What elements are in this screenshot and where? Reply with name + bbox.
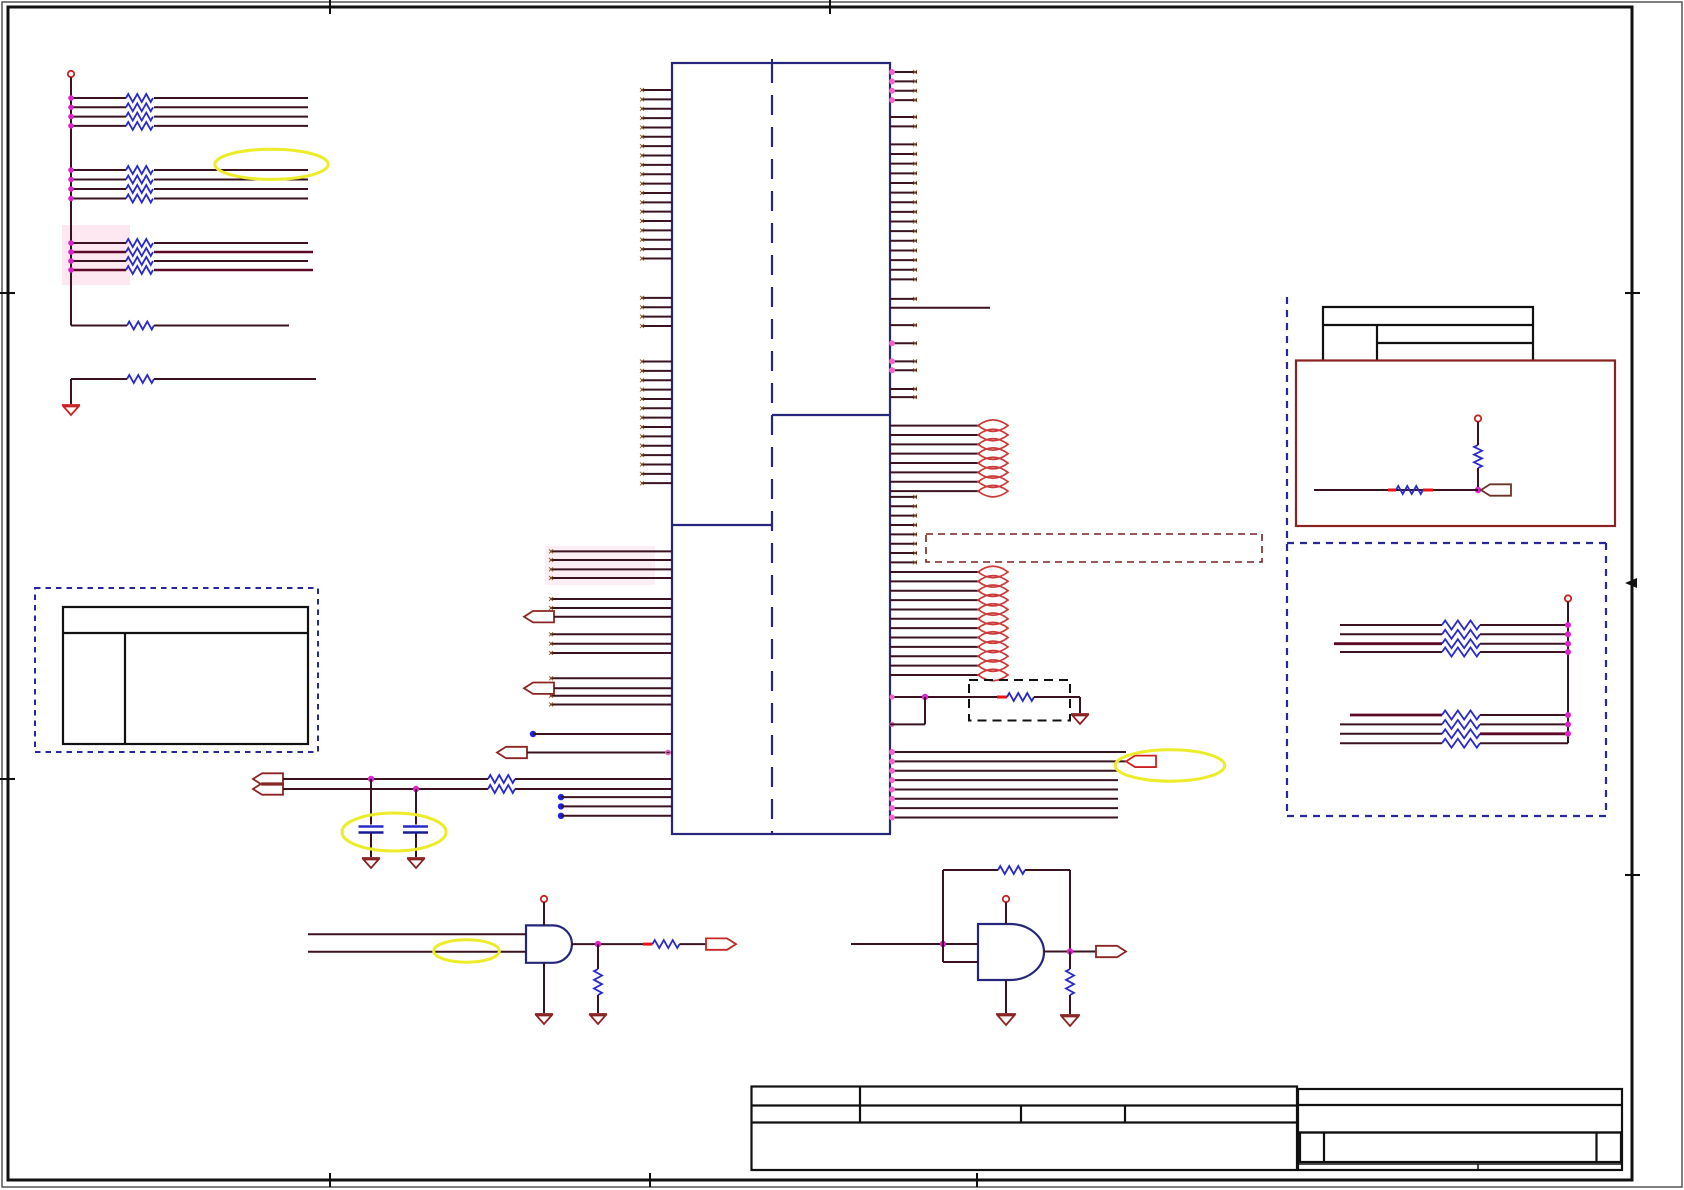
wire xyxy=(597,995,599,1013)
resistor R28 xyxy=(1442,648,1480,657)
sub-circuit box xyxy=(1296,361,1615,527)
junction xyxy=(922,694,928,700)
highlight tint xyxy=(62,225,130,285)
wire output xyxy=(1044,951,1096,953)
power pin VP1 xyxy=(68,71,74,77)
resistor R24 xyxy=(126,195,153,203)
IC right pin group D xyxy=(889,297,917,399)
wire xyxy=(554,687,672,689)
IC U1 divider right half xyxy=(772,414,890,416)
port P3 xyxy=(497,747,527,758)
wire bundle to coil 1 xyxy=(890,426,980,492)
wire group rows 1-2 xyxy=(71,98,308,199)
wire power bus vertical xyxy=(1567,602,1569,744)
wire xyxy=(1477,422,1479,445)
wire to ground xyxy=(1034,697,1080,713)
port P1 xyxy=(524,611,554,622)
resistor R27 xyxy=(1442,639,1480,648)
highlight ellipse D xyxy=(434,940,500,962)
wire group rows 3 xyxy=(71,243,313,270)
pin root dots xyxy=(889,694,894,727)
power pin VP4 xyxy=(1475,415,1481,421)
resistor R9 xyxy=(594,969,602,995)
wire xyxy=(680,943,707,945)
resistor R38 xyxy=(1442,739,1480,748)
capacitor C1 xyxy=(359,779,384,857)
resistor R12 xyxy=(126,103,153,111)
IC U1 top tick xyxy=(771,59,773,67)
port P7 xyxy=(1096,946,1126,957)
resistor R22 xyxy=(126,176,153,184)
IC left pin group A xyxy=(640,88,672,260)
revision table top right xyxy=(1323,307,1533,360)
junction xyxy=(1067,948,1073,954)
dashed region box left xyxy=(35,588,318,752)
IC right pin group B xyxy=(890,115,917,128)
port P2 xyxy=(524,683,554,694)
connector coil chain J1 xyxy=(978,420,1008,497)
wire gnd pin xyxy=(1005,980,1007,1013)
and-gate U2A xyxy=(526,925,572,962)
wire input 1 xyxy=(308,933,526,935)
resistor R37 xyxy=(1442,729,1480,738)
resistor R8 xyxy=(653,940,680,948)
IC left pin group C xyxy=(640,360,672,486)
resistor R10 xyxy=(1007,693,1034,701)
wire bus bottom right xyxy=(889,749,1126,821)
port P4 xyxy=(253,773,283,784)
port P8 xyxy=(1481,484,1511,495)
ground G2 xyxy=(362,858,380,868)
wire group top xyxy=(1334,625,1568,652)
wire group bottom xyxy=(1340,715,1568,743)
IC right pin group A xyxy=(889,69,917,103)
wire row B xyxy=(283,788,672,790)
net color segment xyxy=(1423,489,1433,492)
note table left xyxy=(63,607,308,744)
capacitor C2 xyxy=(403,789,428,857)
resistor R5 xyxy=(127,375,154,383)
IC left pin group B xyxy=(640,296,672,328)
resistor R31 xyxy=(126,239,153,247)
wire vcc xyxy=(1005,902,1007,924)
junction dots left bus xyxy=(68,95,74,273)
resistor R13 xyxy=(126,113,153,121)
wire row A xyxy=(283,778,672,780)
resistor R12 xyxy=(1066,969,1074,995)
wire single row xyxy=(71,325,289,327)
junction xyxy=(1475,487,1481,493)
wire output xyxy=(572,943,643,945)
wire power bus vertical xyxy=(70,77,72,325)
net color segment xyxy=(643,943,653,946)
power pin VP2 xyxy=(541,896,547,902)
resistor R35 xyxy=(1442,711,1480,720)
wire loop xyxy=(890,697,925,724)
title block right table xyxy=(1298,1089,1622,1170)
resistor R33 xyxy=(126,257,153,265)
port P5 xyxy=(253,783,283,794)
resistor R32 xyxy=(126,248,153,256)
highlight ellipse C xyxy=(342,813,446,851)
wire xyxy=(527,752,672,754)
wire vcc xyxy=(543,902,545,925)
wire gnd row xyxy=(71,379,316,404)
net color segment xyxy=(1388,489,1396,492)
net color segment xyxy=(997,696,1007,699)
wire feedback xyxy=(943,870,1070,952)
IC U1 divider left half xyxy=(672,524,772,526)
wire pin 697 xyxy=(890,696,997,698)
resistor R4 xyxy=(127,322,154,330)
resistor R36 xyxy=(1442,720,1480,729)
resistor R14 xyxy=(126,122,153,130)
wire xyxy=(1477,468,1479,490)
resistor R25 xyxy=(1442,621,1480,630)
wire input jog xyxy=(943,944,978,962)
wire xyxy=(1314,489,1478,491)
wire input 2 xyxy=(308,951,526,953)
port P10 xyxy=(1126,756,1156,767)
ground G10 xyxy=(1071,714,1089,724)
wire xyxy=(554,616,672,618)
highlight tint 2 xyxy=(545,546,655,585)
resistor R11 xyxy=(126,94,153,102)
ground G5 xyxy=(589,1014,607,1024)
highlight ellipse A xyxy=(215,149,328,179)
resistor R26 xyxy=(1442,630,1480,639)
IC right pin group E xyxy=(890,495,917,565)
and-gate U2B xyxy=(978,924,1044,980)
junction xyxy=(940,941,946,947)
wire bundle to coil 2 xyxy=(890,572,980,675)
wire gnd pin xyxy=(543,963,545,1013)
resistor R21 xyxy=(126,166,153,174)
ground G3 xyxy=(407,858,425,868)
wire xyxy=(1069,995,1071,1014)
power pin VP3 xyxy=(1003,896,1009,902)
port P6 xyxy=(706,938,736,949)
wire pulldown xyxy=(597,944,599,969)
IC right pin group C xyxy=(890,142,917,281)
resistor R6 xyxy=(488,775,515,783)
wire net long right xyxy=(890,307,990,309)
wire stubs with node dots xyxy=(558,794,672,819)
connector coil chain J2 xyxy=(978,566,1008,680)
wire pulldown xyxy=(1069,952,1071,970)
dashed region box right xyxy=(1287,297,1607,816)
junction xyxy=(595,941,601,947)
ground G4 xyxy=(535,1014,553,1024)
dashed box around R10 xyxy=(969,680,1070,721)
ground G6 xyxy=(996,1014,1016,1025)
resistor R13 xyxy=(1474,445,1482,468)
title block left table xyxy=(752,1087,1298,1171)
junction dots right bus xyxy=(1565,622,1571,737)
pin connect mark xyxy=(666,750,670,754)
dashed net box right xyxy=(926,534,1262,562)
resistor R23 xyxy=(126,185,153,193)
wire net single xyxy=(530,731,672,737)
power pin VP5 xyxy=(1565,595,1571,601)
ground G1 xyxy=(62,405,80,415)
resistor R14 xyxy=(1396,486,1423,494)
resistor R11 xyxy=(998,866,1025,874)
highlight ellipse B xyxy=(1115,750,1224,781)
resistor R7 xyxy=(488,785,515,793)
ground G7 xyxy=(1060,1015,1080,1026)
IC U1 internal dashed divider xyxy=(771,63,773,834)
wire input xyxy=(851,943,978,945)
IC U1 body xyxy=(672,63,890,834)
junction xyxy=(413,786,419,792)
wire stubs left middle xyxy=(549,549,672,706)
junction xyxy=(368,776,374,782)
resistor R34 xyxy=(126,266,153,274)
